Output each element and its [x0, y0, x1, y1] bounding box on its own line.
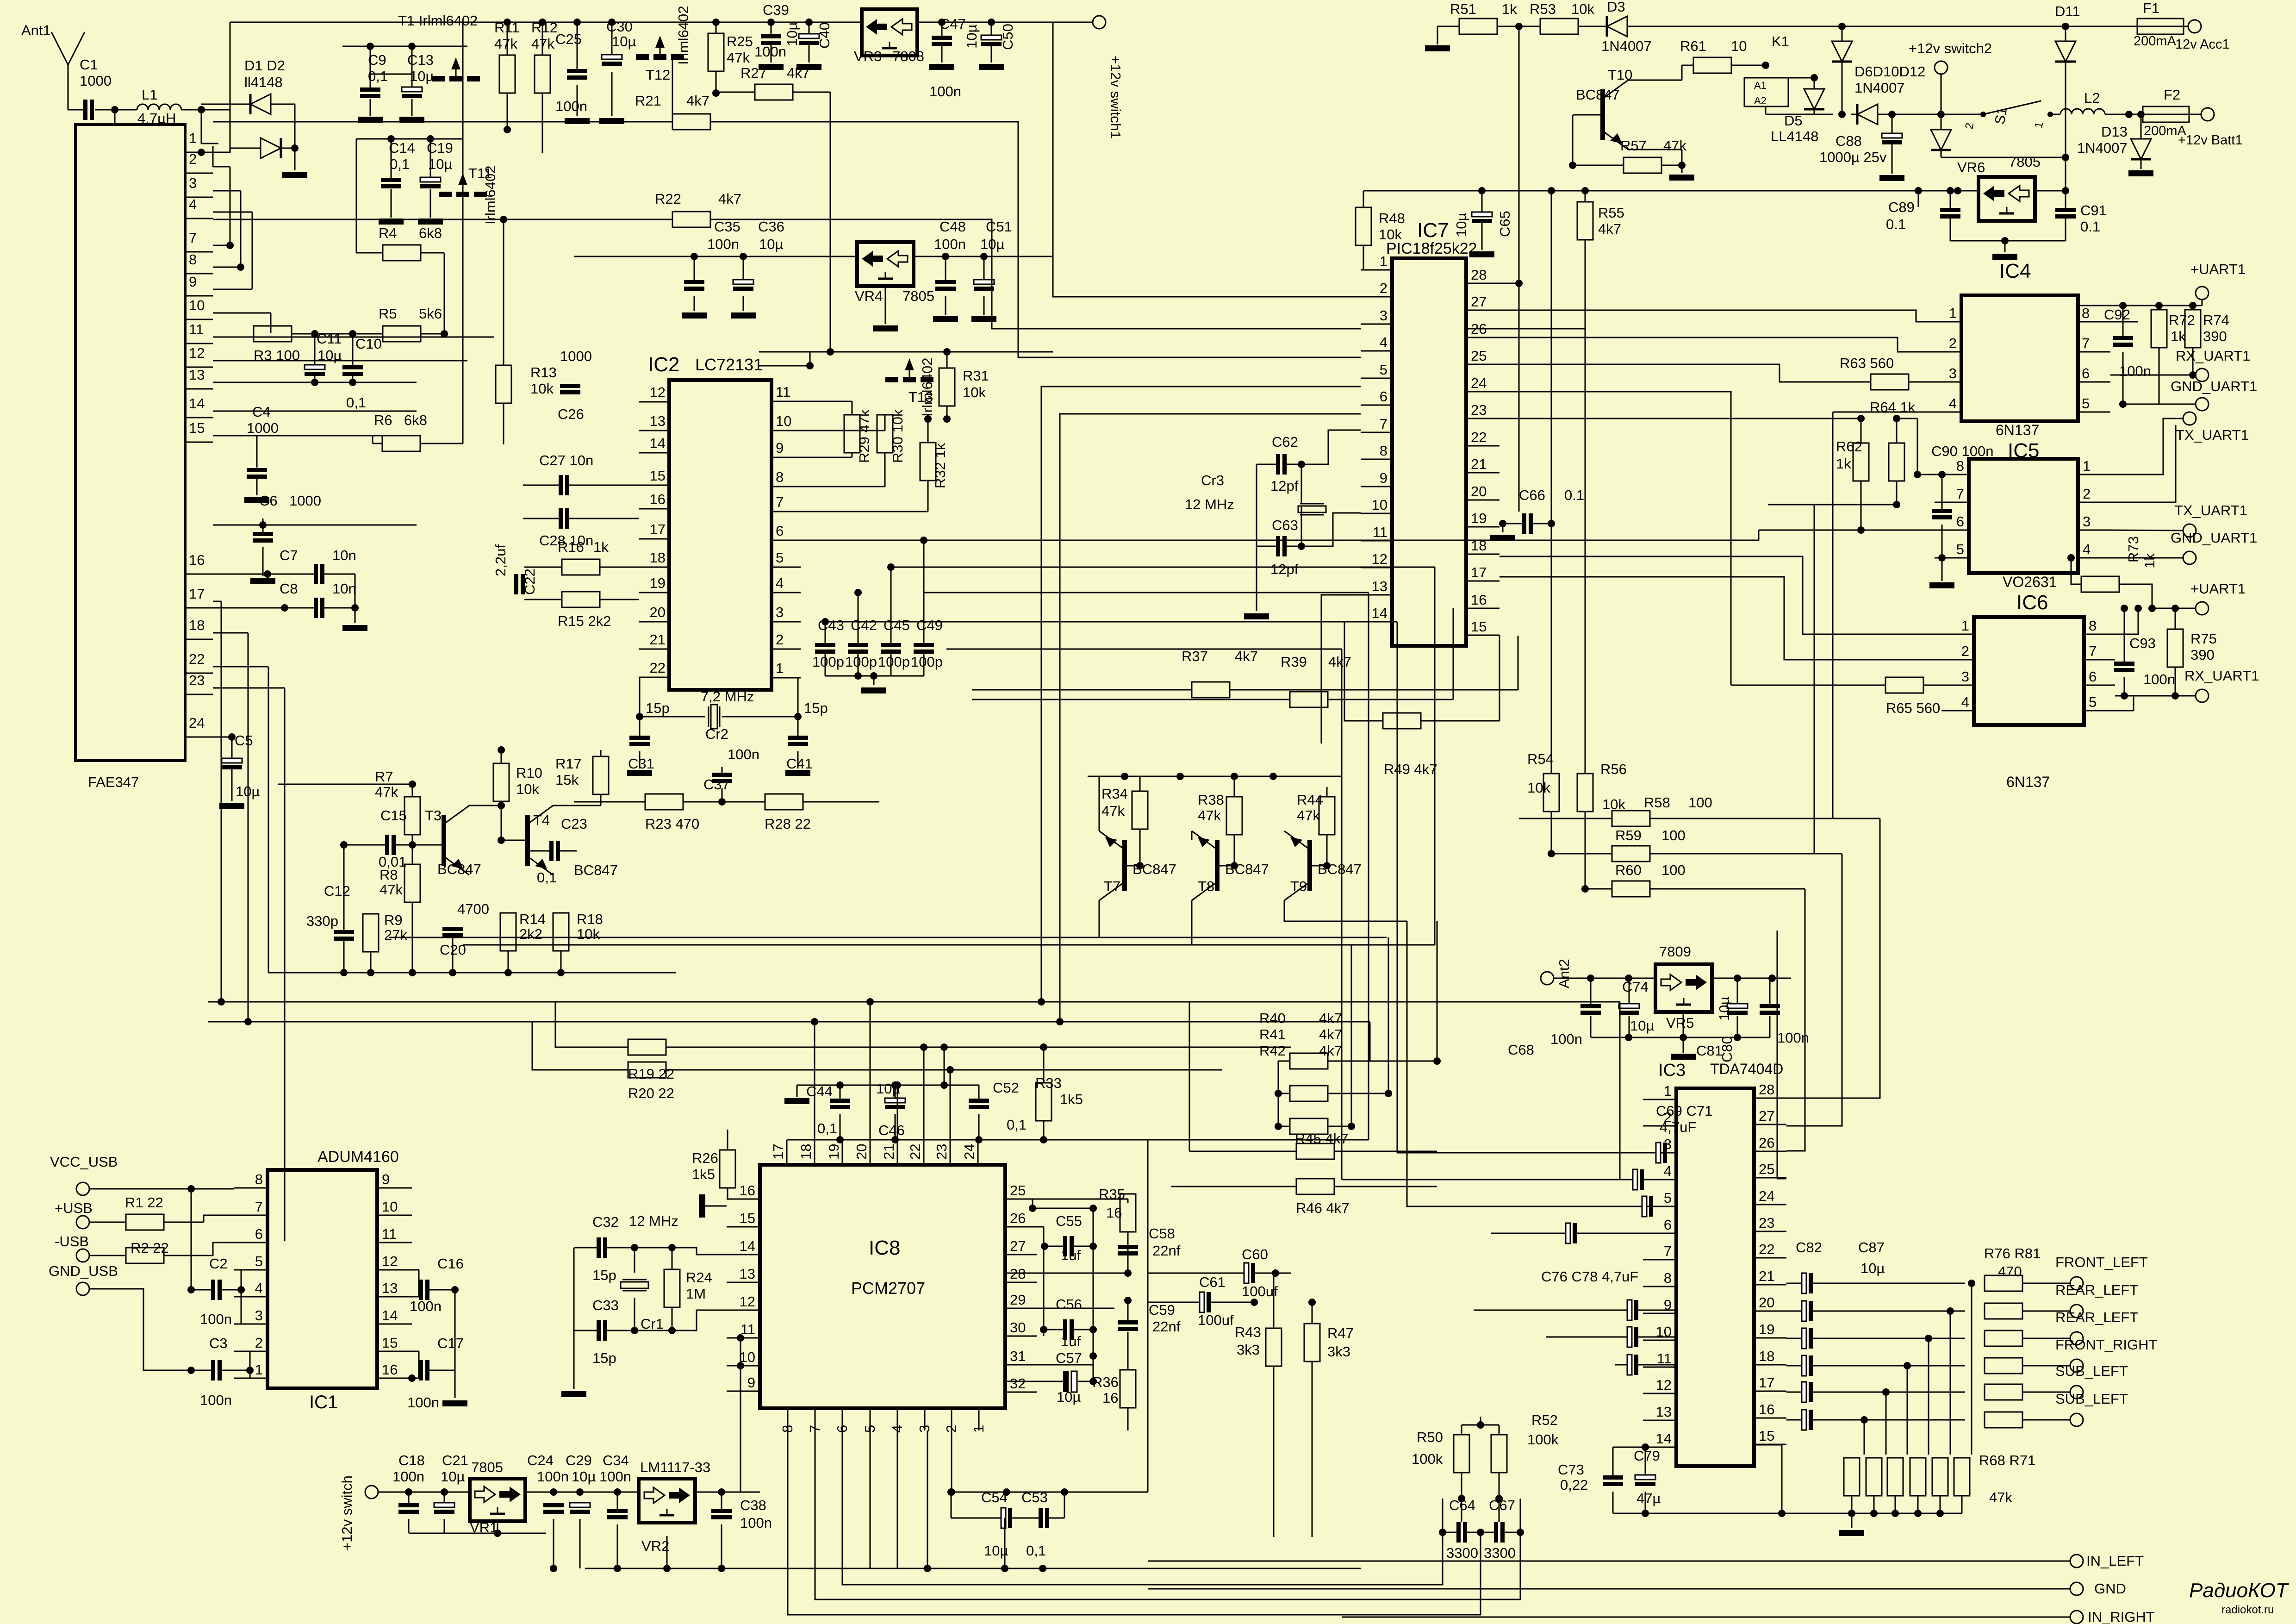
- wire: [1461, 1499, 1462, 1522]
- svg-text:4: 4: [1380, 334, 1388, 350]
- wire: [825, 621, 1397, 623]
- terminal +UART1 2: [2196, 602, 2209, 615]
- wire: [1551, 191, 1552, 774]
- svg-text:D5: D5: [1784, 112, 1803, 129]
- svg-text:19: 19: [1471, 510, 1487, 526]
- svg-text:31: 31: [1010, 1348, 1026, 1364]
- wire: [771, 22, 772, 34]
- capacitor C58 22nf: [1118, 1245, 1138, 1249]
- svg-text:1N4007: 1N4007: [2077, 140, 2128, 156]
- wire: [944, 1047, 945, 1085]
- svg-text:100uf: 100uf: [1242, 1283, 1278, 1299]
- wire: [528, 850, 549, 852]
- svg-text:4k7: 4k7: [1328, 654, 1351, 670]
- wire: [1786, 854, 1842, 1126]
- wire t7 collector: [1099, 900, 1387, 937]
- svg-text:100k: 100k: [1527, 1431, 1559, 1448]
- wire ic8 top: [950, 1070, 951, 1140]
- resistor R56 10k: [1577, 774, 1593, 812]
- resistor R6 6k8: [382, 436, 420, 451]
- ground: [627, 770, 652, 776]
- wire: [1497, 26, 1540, 27]
- wire: [1917, 418, 1918, 475]
- svg-text:Ant2: Ant2: [1556, 959, 1572, 988]
- svg-text:R31: R31: [963, 368, 989, 384]
- svg-text:4700: 4700: [457, 901, 489, 917]
- svg-text:R53: R53: [1530, 1, 1556, 17]
- wire: [2140, 114, 2142, 139]
- wire: [672, 1248, 760, 1255]
- resistor R27 4k7: [755, 84, 793, 100]
- svg-text:C69 C71: C69 C71: [1656, 1103, 1712, 1119]
- resistor R48 10k: [1356, 207, 1371, 245]
- wire: [204, 1215, 234, 1222]
- svg-text:C73: C73: [1558, 1462, 1584, 1478]
- svg-text:16: 16: [382, 1362, 398, 1378]
- wire: [716, 92, 755, 93]
- wire: [278, 784, 412, 785]
- svg-text:VR3: VR3: [854, 48, 882, 64]
- svg-text:1: 1: [2083, 458, 2091, 474]
- svg-text:15p: 15p: [592, 1350, 616, 1366]
- svg-text:A2: A2: [1754, 95, 1767, 106]
- svg-text:11: 11: [382, 1226, 397, 1242]
- resistor R78 470: [1985, 1330, 2022, 1346]
- resistor R36 16: [1120, 1370, 1136, 1408]
- capacitor C66 0.1: [1522, 513, 1526, 534]
- wire: [740, 1391, 741, 1492]
- resistor R45 4k7: [1296, 1143, 1334, 1159]
- wire: [1612, 1492, 1614, 1513]
- resistor R43 3k3: [1266, 1328, 1282, 1366]
- wire: [1573, 115, 1624, 165]
- wire: [1615, 1364, 1627, 1366]
- svg-text:29: 29: [1010, 1292, 1026, 1308]
- svg-text:17: 17: [1471, 564, 1487, 581]
- resistor R14 2k2: [500, 913, 516, 951]
- wire: [553, 1519, 554, 1568]
- wire: [1786, 1392, 1801, 1393]
- resistor R68 47k: [1844, 1458, 1860, 1496]
- svg-text:R22: R22: [655, 191, 681, 207]
- svg-text:24: 24: [189, 715, 205, 731]
- svg-text:15p: 15p: [592, 1267, 616, 1283]
- resistor R38 47k: [1226, 797, 1242, 835]
- wire: [1139, 829, 1141, 866]
- wire: [797, 717, 799, 736]
- wire ic8 bottom: [788, 1430, 1481, 1615]
- svg-text:11: 11: [776, 384, 790, 400]
- svg-text:C34: C34: [603, 1452, 629, 1468]
- ground: [785, 770, 810, 776]
- capacitor C41 15p: [788, 736, 808, 740]
- resistor R61 10: [1693, 57, 1731, 73]
- wire: [924, 592, 1369, 593]
- diode D11: [2055, 41, 2076, 62]
- svg-text:BC847: BC847: [437, 861, 481, 877]
- svg-text:R6: R6: [374, 412, 392, 428]
- svg-text:11: 11: [1373, 524, 1388, 540]
- svg-text:5: 5: [2089, 694, 2097, 710]
- wire: [1731, 65, 1766, 66]
- wire: [2120, 584, 2196, 608]
- svg-text:100: 100: [1661, 862, 1686, 878]
- capacitor C17 100n: [419, 1360, 423, 1380]
- diode D12: [1857, 104, 1878, 125]
- svg-text:13: 13: [650, 413, 666, 429]
- wire: [2110, 530, 2183, 531]
- wire: [574, 1247, 597, 1249]
- wire: [1189, 1002, 1190, 1151]
- wire: [946, 649, 1342, 650]
- wire: [640, 677, 705, 717]
- svg-text:C26: C26: [558, 406, 584, 422]
- wire: [469, 805, 501, 806]
- wire: [2022, 1365, 2070, 1367]
- svg-text:13: 13: [1656, 1404, 1672, 1420]
- resistor R74 390: [2185, 310, 2201, 348]
- voltage regulator VR6 7805: [1979, 177, 2035, 221]
- svg-text:24: 24: [961, 1144, 977, 1160]
- ground: [1879, 175, 1904, 181]
- svg-text:R76 R81: R76 R81: [1984, 1245, 2041, 1262]
- wire: [89, 1188, 234, 1190]
- ground: [933, 316, 958, 322]
- svg-text:R1 22: R1 22: [125, 1194, 163, 1211]
- svg-text:9: 9: [1380, 470, 1388, 486]
- capacitor C22 2,2uf: [514, 574, 518, 594]
- wire: [391, 139, 392, 178]
- wire: [727, 1130, 728, 1150]
- ground: [699, 1194, 705, 1218]
- terminal +12v switch1: [1093, 16, 1106, 29]
- svg-text:C63: C63: [1272, 517, 1298, 533]
- svg-text:11: 11: [189, 321, 204, 337]
- wire ic8 bottom: [815, 1430, 1520, 1599]
- svg-text:R65 560: R65 560: [1886, 700, 1940, 716]
- svg-text:R4: R4: [379, 225, 397, 241]
- svg-text:10µ: 10µ: [1057, 1389, 1081, 1405]
- capacitor C68 100n: [1580, 1004, 1601, 1008]
- wire: [501, 801, 502, 840]
- capacitor C34 100n: [607, 1509, 628, 1513]
- svg-text:7805: 7805: [2009, 154, 2041, 170]
- wire: [201, 110, 218, 144]
- resistor R52 100k: [1491, 1435, 1507, 1473]
- resistor R69 47k: [1866, 1458, 1882, 1496]
- svg-text:C15: C15: [380, 807, 407, 824]
- svg-text:C90 100n: C90 100n: [1931, 443, 1993, 459]
- svg-text:Cr2: Cr2: [705, 726, 728, 742]
- antenna Ant1: [51, 32, 68, 110]
- svg-text:C67: C67: [1489, 1497, 1515, 1513]
- wire: [2035, 190, 2036, 192]
- resistor R41 4k7: [1290, 1086, 1328, 1101]
- inductor L2: [2060, 109, 2105, 114]
- svg-text:16: 16: [1102, 1390, 1118, 1406]
- capacitor C5 10u: [222, 758, 242, 763]
- wire: [213, 312, 271, 314]
- svg-text:28: 28: [1759, 1081, 1774, 1098]
- svg-text:4k7: 4k7: [686, 93, 709, 109]
- capacitor C30 10u: [602, 55, 622, 59]
- ground: [1839, 1530, 1864, 1536]
- wire: [1093, 1355, 1094, 1357]
- transistor T8 BC847: [1215, 840, 1220, 891]
- capacitor C65 10u: [1472, 212, 1492, 217]
- capacitor C29 10u: [570, 1503, 590, 1507]
- capacitor C35 100n: [684, 280, 704, 284]
- svg-text:7805: 7805: [471, 1459, 503, 1475]
- svg-text:R46 4k7: R46 4k7: [1296, 1200, 1349, 1216]
- svg-text:7: 7: [1664, 1243, 1672, 1259]
- terminal +12v switch2: [1935, 61, 1948, 74]
- wire: [213, 411, 417, 412]
- svg-text:17: 17: [650, 521, 666, 537]
- wire: [951, 1492, 1148, 1493]
- svg-text:C88: C88: [1836, 133, 1862, 149]
- svg-text:C21: C21: [442, 1452, 468, 1468]
- resistor R34 47k: [1132, 791, 1148, 829]
- svg-text:2: 2: [776, 631, 784, 648]
- svg-text:Irlml6402: Irlml6402: [919, 358, 935, 417]
- svg-text:47k: 47k: [380, 881, 403, 898]
- wire: [1833, 412, 1930, 413]
- wire: [1941, 475, 1943, 509]
- terminal SUB_LEFT: [2070, 1413, 2083, 1426]
- wire: [1737, 978, 1738, 1003]
- ground: [561, 1391, 586, 1397]
- wire: [2115, 710, 2134, 712]
- wire: [191, 1189, 192, 1290]
- svg-text:1000: 1000: [247, 420, 279, 436]
- svg-text:47k: 47k: [1101, 803, 1125, 819]
- wire: [1069, 22, 1093, 23]
- wire: [852, 401, 853, 415]
- svg-text:+12v switch: +12v switch: [339, 1475, 355, 1551]
- svg-text:0.1: 0.1: [1886, 216, 1906, 232]
- wire: [1814, 505, 1815, 854]
- wire pin1 to diodes: [213, 110, 230, 152]
- capacitor C33 15p: [597, 1320, 601, 1341]
- wire fae ladder: [248, 633, 249, 1022]
- wire: [1777, 931, 1778, 1179]
- svg-text:3: 3: [255, 1307, 263, 1324]
- wire: [185, 152, 201, 153]
- svg-text:TX_UART1: TX_UART1: [2174, 502, 2247, 518]
- svg-text:100n: 100n: [929, 83, 961, 100]
- svg-text:20: 20: [1471, 483, 1487, 500]
- terminal GND_UART1: [2196, 398, 2209, 411]
- wire: [825, 675, 924, 677]
- svg-text:10µ: 10µ: [1630, 1018, 1654, 1034]
- svg-text:100uf: 100uf: [1198, 1312, 1234, 1328]
- svg-text:L2: L2: [2084, 90, 2100, 106]
- wire: [1148, 1302, 1199, 1303]
- wire: [2110, 418, 2183, 475]
- wire: [532, 1022, 628, 1070]
- svg-text:2: 2: [2083, 486, 2091, 502]
- wire vr4 gnd: [885, 286, 886, 324]
- svg-text:5: 5: [1664, 1190, 1672, 1206]
- svg-text:15: 15: [740, 1210, 755, 1226]
- resistor R3 100: [254, 326, 292, 342]
- svg-text:100n: 100n: [707, 236, 739, 252]
- wire: [1442, 1499, 1444, 1532]
- junction: [1860, 1416, 1868, 1424]
- wire ic8 top: [977, 1139, 979, 1141]
- svg-text:100n: 100n: [1550, 1031, 1582, 1047]
- crystal Cr1 12 MHz: [622, 1279, 647, 1280]
- capacitor C28 10n: [559, 508, 563, 529]
- svg-text:4k7: 4k7: [718, 191, 741, 207]
- wire: [367, 43, 374, 50]
- wire: [972, 689, 1192, 691]
- resistor R9 27k: [363, 914, 379, 952]
- wire vr4 to ic7 pin2: [1053, 256, 1361, 297]
- capacitor C77 4,7uF: [1627, 1300, 1632, 1320]
- svg-text:IC4: IC4: [1999, 260, 2031, 282]
- svg-text:+UART1: +UART1: [2190, 581, 2246, 597]
- svg-text:25: 25: [1759, 1161, 1774, 1177]
- svg-text:R21: R21: [635, 93, 661, 109]
- ground: [1490, 535, 1515, 541]
- wire t9 collector: [1284, 900, 1407, 921]
- wire: [2175, 608, 2176, 629]
- junction: [1778, 1510, 1786, 1517]
- wire: [1127, 1300, 1129, 1320]
- svg-text:19: 19: [1759, 1321, 1774, 1337]
- capacitor C53 0,1: [1039, 1508, 1043, 1528]
- svg-text:S1: S1: [1992, 106, 2010, 125]
- wire: [1786, 818, 1880, 1098]
- svg-text:R56: R56: [1600, 761, 1627, 777]
- wire: [951, 1430, 952, 1492]
- wire: [1554, 978, 1655, 979]
- svg-text:R44: R44: [1297, 792, 1323, 808]
- svg-text:7: 7: [189, 230, 197, 246]
- wire: [606, 1492, 639, 1493]
- svg-text:R51: R51: [1450, 1, 1476, 17]
- wire: [666, 1047, 1291, 1048]
- wire: [230, 148, 261, 149]
- wire: [722, 678, 798, 717]
- svg-text:16: 16: [1759, 1401, 1774, 1418]
- capacitor C48 100n: [935, 280, 956, 284]
- wire: [1437, 921, 1438, 1061]
- svg-text:16: 16: [1471, 592, 1487, 608]
- svg-text:22: 22: [650, 660, 666, 676]
- svg-text:10k: 10k: [963, 384, 986, 400]
- wire: [503, 219, 504, 365]
- svg-text:C66: C66: [1519, 487, 1545, 503]
- svg-text:C32: C32: [592, 1214, 619, 1230]
- svg-text:C29: C29: [566, 1452, 592, 1468]
- capacitor C83 10u: [1802, 1301, 1806, 1321]
- wire: [501, 750, 502, 763]
- resistor R59 100: [1612, 846, 1650, 862]
- wire: [314, 334, 316, 364]
- svg-text:T7: T7: [1104, 878, 1120, 894]
- wire: [1491, 1233, 1565, 1234]
- svg-text:100n: 100n: [754, 44, 786, 60]
- capacitor C13 10u: [402, 87, 422, 92]
- wire: [230, 167, 231, 245]
- svg-text:IC7: IC7: [1417, 219, 1449, 242]
- svg-text:R15 2k2: R15 2k2: [558, 613, 611, 629]
- diode D10: [1804, 89, 1824, 109]
- svg-text:L1: L1: [142, 87, 157, 103]
- resistor R42 4k7: [1290, 1118, 1328, 1134]
- capacitor C1 1000: [83, 100, 87, 120]
- ground: [759, 64, 784, 70]
- svg-text:C22: C22: [522, 568, 538, 595]
- capacitor C18 100n: [398, 1503, 419, 1507]
- ground: [873, 325, 898, 331]
- capacitor C92 100n: [2113, 336, 2133, 340]
- wire: [1369, 1022, 1371, 1061]
- wire: [213, 435, 373, 437]
- fuse F2 200mA: [2143, 106, 2189, 122]
- wire: [1041, 387, 1361, 1002]
- svg-text:C55: C55: [1056, 1213, 1082, 1229]
- svg-text:C56: C56: [1056, 1296, 1082, 1312]
- wire rail R20: [208, 1021, 1370, 1023]
- junction: [1848, 1510, 1855, 1517]
- resistor R79 470: [1985, 1358, 2022, 1374]
- svg-text:C93: C93: [2129, 635, 2156, 651]
- resistor R23 470: [645, 794, 683, 810]
- wire: [1139, 776, 1141, 791]
- wire: [600, 794, 602, 806]
- wire: [212, 146, 214, 167]
- svg-text:LL4148: LL4148: [1771, 128, 1818, 144]
- wire: [1895, 1496, 1896, 1513]
- resistor R16 1k: [562, 559, 600, 575]
- resistor R72 1k: [2151, 310, 2167, 348]
- junction: [1936, 1510, 1944, 1517]
- resistor R13 10k: [496, 365, 511, 403]
- wire ic7 pin28: [1500, 283, 1519, 284]
- capacitor C71 4,7uF: [1633, 1169, 1637, 1190]
- capacitor C67 3300: [1494, 1522, 1498, 1543]
- wire: [1044, 1139, 1148, 1141]
- wire: [2105, 114, 2145, 115]
- svg-text:C38: C38: [740, 1497, 766, 1513]
- wire: [314, 376, 316, 382]
- svg-text:C24: C24: [527, 1452, 554, 1468]
- svg-text:IC3: IC3: [1658, 1061, 1686, 1080]
- svg-text:13: 13: [382, 1280, 398, 1296]
- capacitor C51 10u: [974, 280, 994, 284]
- svg-text:R42: R42: [1259, 1043, 1286, 1059]
- terminal GND: [2070, 1582, 2083, 1595]
- wire: [420, 443, 463, 444]
- wire: [1786, 1419, 1801, 1421]
- svg-text:C16: C16: [437, 1255, 464, 1272]
- wire: [524, 567, 562, 568]
- wire: [796, 1085, 798, 1097]
- svg-text:200mA: 200mA: [2134, 34, 2177, 49]
- svg-text:15: 15: [382, 1335, 398, 1351]
- resistor R17 15k: [593, 756, 609, 794]
- wire: [1421, 720, 1500, 722]
- ground: [929, 64, 954, 70]
- svg-text:GND_UART1: GND_UART1: [2171, 530, 2257, 546]
- wire: [1500, 310, 1930, 322]
- capacitor C39 10u: [761, 34, 781, 38]
- crystal Cr3 12 MHz: [1300, 503, 1324, 505]
